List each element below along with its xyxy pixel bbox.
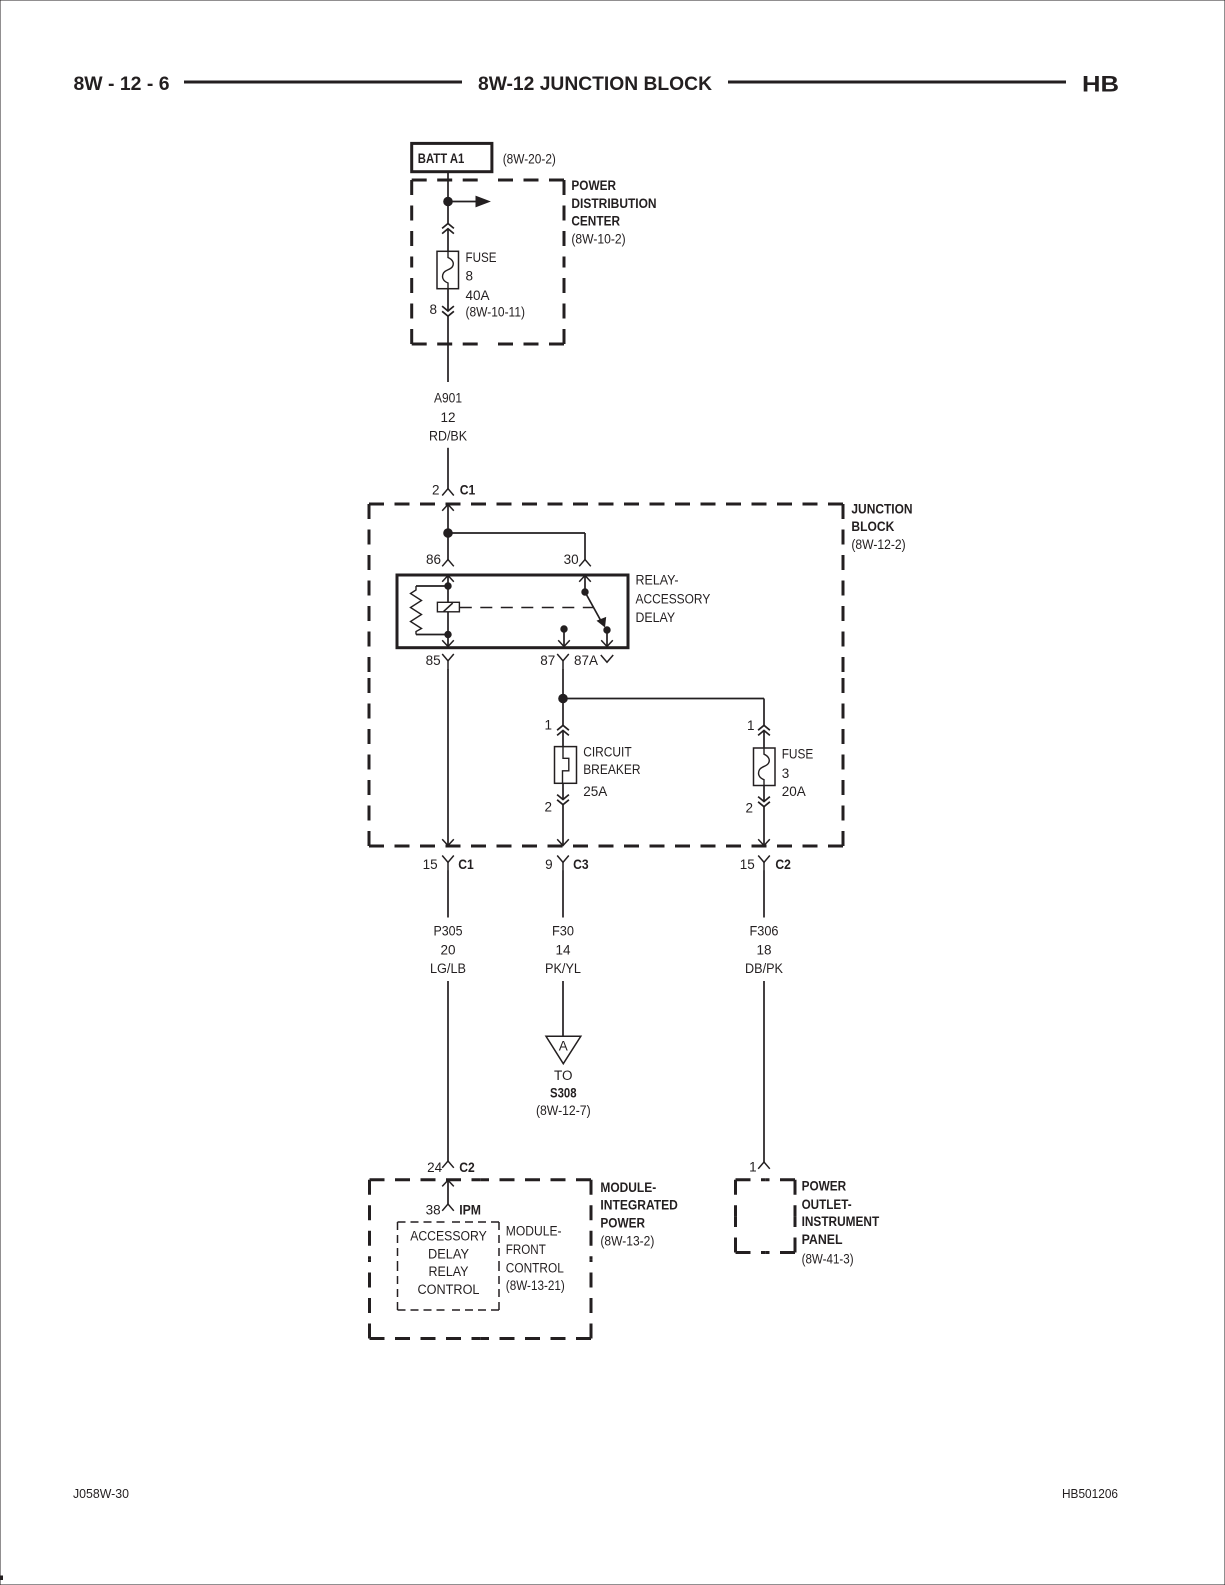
- wire fuse 3 to C2-15: [763, 786, 765, 846]
- svg-text:85: 85: [426, 653, 441, 668]
- svg-text:87A: 87A: [574, 653, 598, 668]
- pin 38 label: [426, 1202, 441, 1217]
- svg-text:F30: F30: [552, 923, 574, 938]
- pin 30 splay: [579, 560, 591, 567]
- svg-text:C2: C2: [775, 857, 791, 872]
- svg-text:86: 86: [426, 552, 441, 567]
- fuse F3 body: [754, 748, 776, 786]
- svg-text:(8W-12-2): (8W-12-2): [851, 537, 905, 552]
- relay pin 86 entry arrow: [442, 576, 454, 582]
- exit arrow C2-15: [758, 839, 770, 845]
- svg-text:PK/YL: PK/YL: [545, 961, 581, 976]
- wire label F30 14 PK/YL: [545, 923, 581, 976]
- svg-text:(8W-12-7): (8W-12-7): [536, 1103, 591, 1118]
- svg-text:2: 2: [544, 800, 552, 815]
- svg-text:MODULE-: MODULE-: [506, 1223, 562, 1238]
- svg-text:F306: F306: [750, 923, 779, 938]
- relay coil node upper: [445, 583, 451, 589]
- relay coil body: [437, 602, 459, 612]
- svg-text:2: 2: [432, 482, 440, 497]
- junction node in PDC: [444, 197, 453, 206]
- pin 8 exit chevrons: [442, 306, 454, 316]
- svg-text:2: 2: [745, 800, 753, 815]
- svg-text:8W-12 JUNCTION BLOCK: 8W-12 JUNCTION BLOCK: [478, 73, 712, 95]
- relay contact 87A stub: [606, 633, 608, 647]
- svg-text:ACCESSORY: ACCESSORY: [636, 591, 711, 606]
- svg-text:C1: C1: [458, 857, 474, 872]
- wire P305 lower: [447, 981, 449, 1161]
- connector C1 name: [460, 482, 476, 497]
- connector C1 pin 2 splay: [442, 489, 454, 496]
- header rule left: [184, 81, 462, 84]
- wire pin85 to C1-15: [447, 669, 449, 846]
- svg-text:12: 12: [440, 410, 455, 425]
- svg-text:BREAKER: BREAKER: [583, 762, 641, 777]
- relay accessory delay box: [397, 575, 628, 648]
- wire F30 upper: [562, 871, 564, 918]
- entry arrow at junction block top: [442, 505, 454, 511]
- fuse 3 pin 2 chevrons: [758, 797, 770, 807]
- wire label P305 20 LG/LB: [430, 923, 466, 976]
- relay contact 87 node: [561, 626, 567, 632]
- svg-text:(8W-13-2): (8W-13-2): [600, 1234, 654, 1249]
- connector outlet pin 1 splay: [758, 1162, 770, 1169]
- connector IPM pin 38 splay: [442, 1204, 454, 1211]
- label JUNCTION BLOCK (8W-12-2): [851, 502, 912, 553]
- svg-text:BATT A1: BATT A1: [418, 151, 465, 166]
- pin 1 label outlet: [749, 1159, 757, 1174]
- svg-text:DISTRIBUTION: DISTRIBUTION: [571, 196, 656, 211]
- svg-text:24: 24: [427, 1160, 443, 1175]
- junction node 87 branch: [559, 694, 568, 703]
- breaker pin 1 label: [544, 718, 552, 733]
- relay contact 87A node: [604, 627, 610, 633]
- svg-text:CONTROL: CONTROL: [506, 1260, 564, 1275]
- connector C2 pin 24 splay: [442, 1161, 454, 1168]
- svg-text:1: 1: [747, 718, 755, 733]
- svg-text:30: 30: [564, 552, 579, 567]
- svg-text:40A: 40A: [466, 288, 490, 303]
- junction block dashed box: [369, 504, 843, 846]
- svg-text:POWER: POWER: [600, 1216, 645, 1231]
- connector C2 pin 15 Y: [758, 856, 770, 871]
- pin 15 label C2: [740, 857, 755, 872]
- connector C1 pin 15 Y: [442, 856, 454, 871]
- pin 87 label: [540, 653, 555, 668]
- pin 85 label: [426, 653, 441, 668]
- branch wire to fuse 3: [563, 699, 764, 749]
- wire label F306 18 DB/PK: [745, 923, 783, 976]
- fuse F8 body: [437, 251, 459, 288]
- relay switch blade: [585, 592, 606, 627]
- svg-text:FRONT: FRONT: [506, 1242, 546, 1257]
- wire C1 to relay pin 86: [447, 505, 449, 560]
- relay resistor link top: [416, 585, 448, 587]
- label POWER DISTRIBUTION CENTER (8W-10-2): [571, 178, 656, 246]
- svg-text:9: 9: [545, 857, 553, 872]
- svg-text:15: 15: [423, 857, 438, 872]
- circuit breaker body: [555, 747, 577, 784]
- svg-text:8W - 12 - 6: 8W - 12 - 6: [74, 73, 170, 95]
- svg-text:S308: S308: [550, 1085, 577, 1100]
- svg-text:C3: C3: [573, 857, 589, 872]
- svg-text:(8W-13-21): (8W-13-21): [506, 1278, 565, 1293]
- wire breaker to C3-9: [562, 783, 564, 845]
- pin 87 connector Y: [557, 654, 569, 669]
- svg-text:C1: C1: [460, 482, 476, 497]
- svg-text:DB/PK: DB/PK: [745, 961, 783, 976]
- wire into IPM: [447, 1180, 449, 1204]
- header rule right: [728, 81, 1066, 84]
- svg-text:BLOCK: BLOCK: [851, 519, 894, 534]
- relay coil wire lower: [447, 612, 449, 647]
- wire P305 upper: [447, 871, 449, 918]
- svg-text:A: A: [559, 1039, 568, 1054]
- connector C3 pin 9 Y: [557, 856, 569, 871]
- relay pin 87A exit arrow: [601, 640, 613, 646]
- svg-text:RD/BK: RD/BK: [429, 429, 467, 444]
- label FUSE 8 40A (8W-10-11): [466, 250, 526, 320]
- connector chevrons in PDC: [442, 224, 454, 234]
- svg-text:FUSE: FUSE: [782, 746, 814, 761]
- connector C2 name module: [459, 1160, 475, 1175]
- svg-text:P305: P305: [434, 923, 463, 938]
- svg-text:38: 38: [426, 1202, 441, 1217]
- svg-text:TO: TO: [554, 1068, 573, 1083]
- svg-text:8: 8: [466, 268, 474, 283]
- module integrated power dashed box: [370, 1180, 592, 1339]
- pin 24 label: [427, 1160, 443, 1175]
- svg-text:CENTER: CENTER: [571, 214, 620, 229]
- breaker pin 1 chevrons: [557, 725, 569, 735]
- svg-text:CIRCUIT: CIRCUIT: [583, 745, 632, 760]
- relay switch pivot node: [582, 589, 588, 595]
- reference (8W-20-2): [503, 152, 556, 167]
- entry arrow module box: [442, 1180, 454, 1186]
- svg-text:RELAY: RELAY: [429, 1264, 469, 1279]
- label CIRCUIT BREAKER 25A: [583, 745, 641, 800]
- relay switch wire: [584, 576, 586, 593]
- svg-text:14: 14: [555, 942, 571, 957]
- relay resistor zigzag: [411, 586, 422, 635]
- svg-text:LG/LB: LG/LB: [430, 961, 466, 976]
- svg-text:MODULE-: MODULE-: [600, 1180, 656, 1195]
- pin 85 connector Y: [442, 654, 454, 669]
- relay pin 30 entry arrow: [579, 576, 591, 582]
- relay contact 87 stub: [563, 632, 565, 647]
- wire label A901 12 RD/BK: [429, 391, 467, 444]
- connector C2 name: [775, 857, 791, 872]
- svg-text:(8W-10-11): (8W-10-11): [466, 305, 526, 320]
- relay coil wire upper: [447, 576, 449, 603]
- svg-text:C2: C2: [459, 1160, 475, 1175]
- label ACCESSORY DELAY RELAY CONTROL: [410, 1228, 487, 1297]
- fuse 3 pin 1 label: [747, 718, 755, 733]
- power distribution center dashed box: [412, 180, 564, 344]
- footer sheet code: [1062, 1487, 1118, 1501]
- relay pin 87 exit arrow: [558, 640, 570, 646]
- svg-text:1: 1: [544, 718, 552, 733]
- svg-text:A901: A901: [434, 391, 462, 406]
- svg-text:15: 15: [740, 857, 755, 872]
- splice symbol A: [546, 1036, 581, 1063]
- svg-text:INSTRUMENT: INSTRUMENT: [802, 1214, 880, 1229]
- junction node to relay branch: [444, 529, 453, 538]
- footer drawing number: [73, 1487, 129, 1501]
- label RELAY-ACCESSORY DELAY: [636, 573, 711, 626]
- svg-text:3: 3: [782, 766, 790, 781]
- connector C1 name bottom: [458, 857, 474, 872]
- svg-text:JUNCTION: JUNCTION: [851, 502, 912, 517]
- svg-text:POWER: POWER: [802, 1178, 847, 1193]
- svg-text:PANEL: PANEL: [802, 1232, 843, 1247]
- fuse 3 pin 2 label: [745, 800, 753, 815]
- svg-text:25A: 25A: [583, 784, 607, 799]
- exit arrow C1-15: [442, 839, 454, 845]
- header HB text: [1082, 72, 1119, 97]
- relay dashed actuation line: [460, 607, 594, 609]
- wire F306 upper: [763, 871, 765, 918]
- wire F306 lower: [763, 981, 765, 1162]
- svg-text:J058W-30: J058W-30: [73, 1487, 129, 1501]
- svg-text:FUSE: FUSE: [466, 250, 497, 265]
- breaker pin 2 label: [544, 800, 552, 815]
- pin 15 label C1: [423, 857, 438, 872]
- wire pin87 to breaker: [562, 669, 564, 747]
- header title text: [478, 73, 712, 95]
- relay pin 85 exit arrow: [442, 640, 454, 646]
- breaker pin 2 chevrons: [557, 795, 569, 805]
- label FUSE 3 20A: [782, 746, 814, 799]
- svg-text:HB: HB: [1082, 72, 1119, 97]
- pin 9 label C3: [545, 857, 553, 872]
- branch arrow to other circuits: [448, 196, 490, 206]
- page artifact dot: [0, 1576, 3, 1580]
- svg-text:20A: 20A: [782, 784, 806, 799]
- svg-text:OUTLET-: OUTLET-: [802, 1197, 852, 1212]
- battery feed box BATT A1: [412, 143, 492, 171]
- label POWER OUTLET-INSTRUMENT PANEL (8W-41-3): [802, 1178, 880, 1266]
- svg-text:18: 18: [756, 942, 771, 957]
- svg-text:DELAY: DELAY: [428, 1247, 469, 1262]
- header page number text: [74, 73, 170, 95]
- svg-text:(8W-10-2): (8W-10-2): [571, 231, 625, 246]
- svg-text:87: 87: [540, 653, 555, 668]
- svg-text:IPM: IPM: [459, 1202, 481, 1217]
- pin 87A open chevron: [601, 655, 613, 662]
- label MODULE-INTEGRATED POWER (8W-13-2): [600, 1180, 678, 1249]
- svg-text:(8W-41-3): (8W-41-3): [802, 1251, 854, 1266]
- svg-text:CONTROL: CONTROL: [418, 1282, 480, 1297]
- svg-text:RELAY-: RELAY-: [636, 573, 679, 588]
- pin 8 label: [429, 302, 437, 317]
- relay coil node lower: [445, 631, 451, 637]
- power outlet dashed box: [736, 1180, 796, 1253]
- pin 86 splay: [442, 560, 454, 567]
- connector IPM name: [459, 1202, 481, 1217]
- svg-text:1: 1: [749, 1159, 757, 1174]
- wire A901 lower segment: [447, 448, 449, 489]
- accessory delay relay control inner dashed box: [398, 1222, 500, 1310]
- svg-text:POWER: POWER: [571, 178, 616, 193]
- pin 30 label: [564, 552, 579, 567]
- svg-text:DELAY: DELAY: [636, 610, 676, 625]
- svg-text:20: 20: [440, 942, 455, 957]
- svg-text:(8W-20-2): (8W-20-2): [503, 152, 556, 167]
- svg-text:HB501206: HB501206: [1062, 1487, 1118, 1501]
- label MODULE-FRONT CONTROL (8W-13-21): [506, 1223, 565, 1293]
- pin 87A label: [574, 653, 598, 668]
- svg-text:8: 8: [429, 302, 437, 317]
- connector C3 name: [573, 857, 589, 872]
- svg-text:ACCESSORY: ACCESSORY: [410, 1228, 487, 1243]
- label TO S308 (8W-12-7): [536, 1068, 591, 1118]
- fuse 3 pin 1 chevrons: [758, 725, 770, 735]
- exit arrow C3-9: [557, 839, 569, 845]
- wire fuse 8 to PDC exit: [447, 289, 449, 382]
- pin 2 label: [432, 482, 440, 497]
- svg-text:INTEGRATED: INTEGRATED: [600, 1198, 678, 1213]
- relay resistor link bottom: [416, 634, 448, 636]
- pin 86 label: [426, 552, 441, 567]
- wire batt to fuse 8: [447, 172, 449, 252]
- wire F30 lower: [562, 981, 564, 1036]
- branch wire to relay pin 30: [448, 533, 585, 560]
